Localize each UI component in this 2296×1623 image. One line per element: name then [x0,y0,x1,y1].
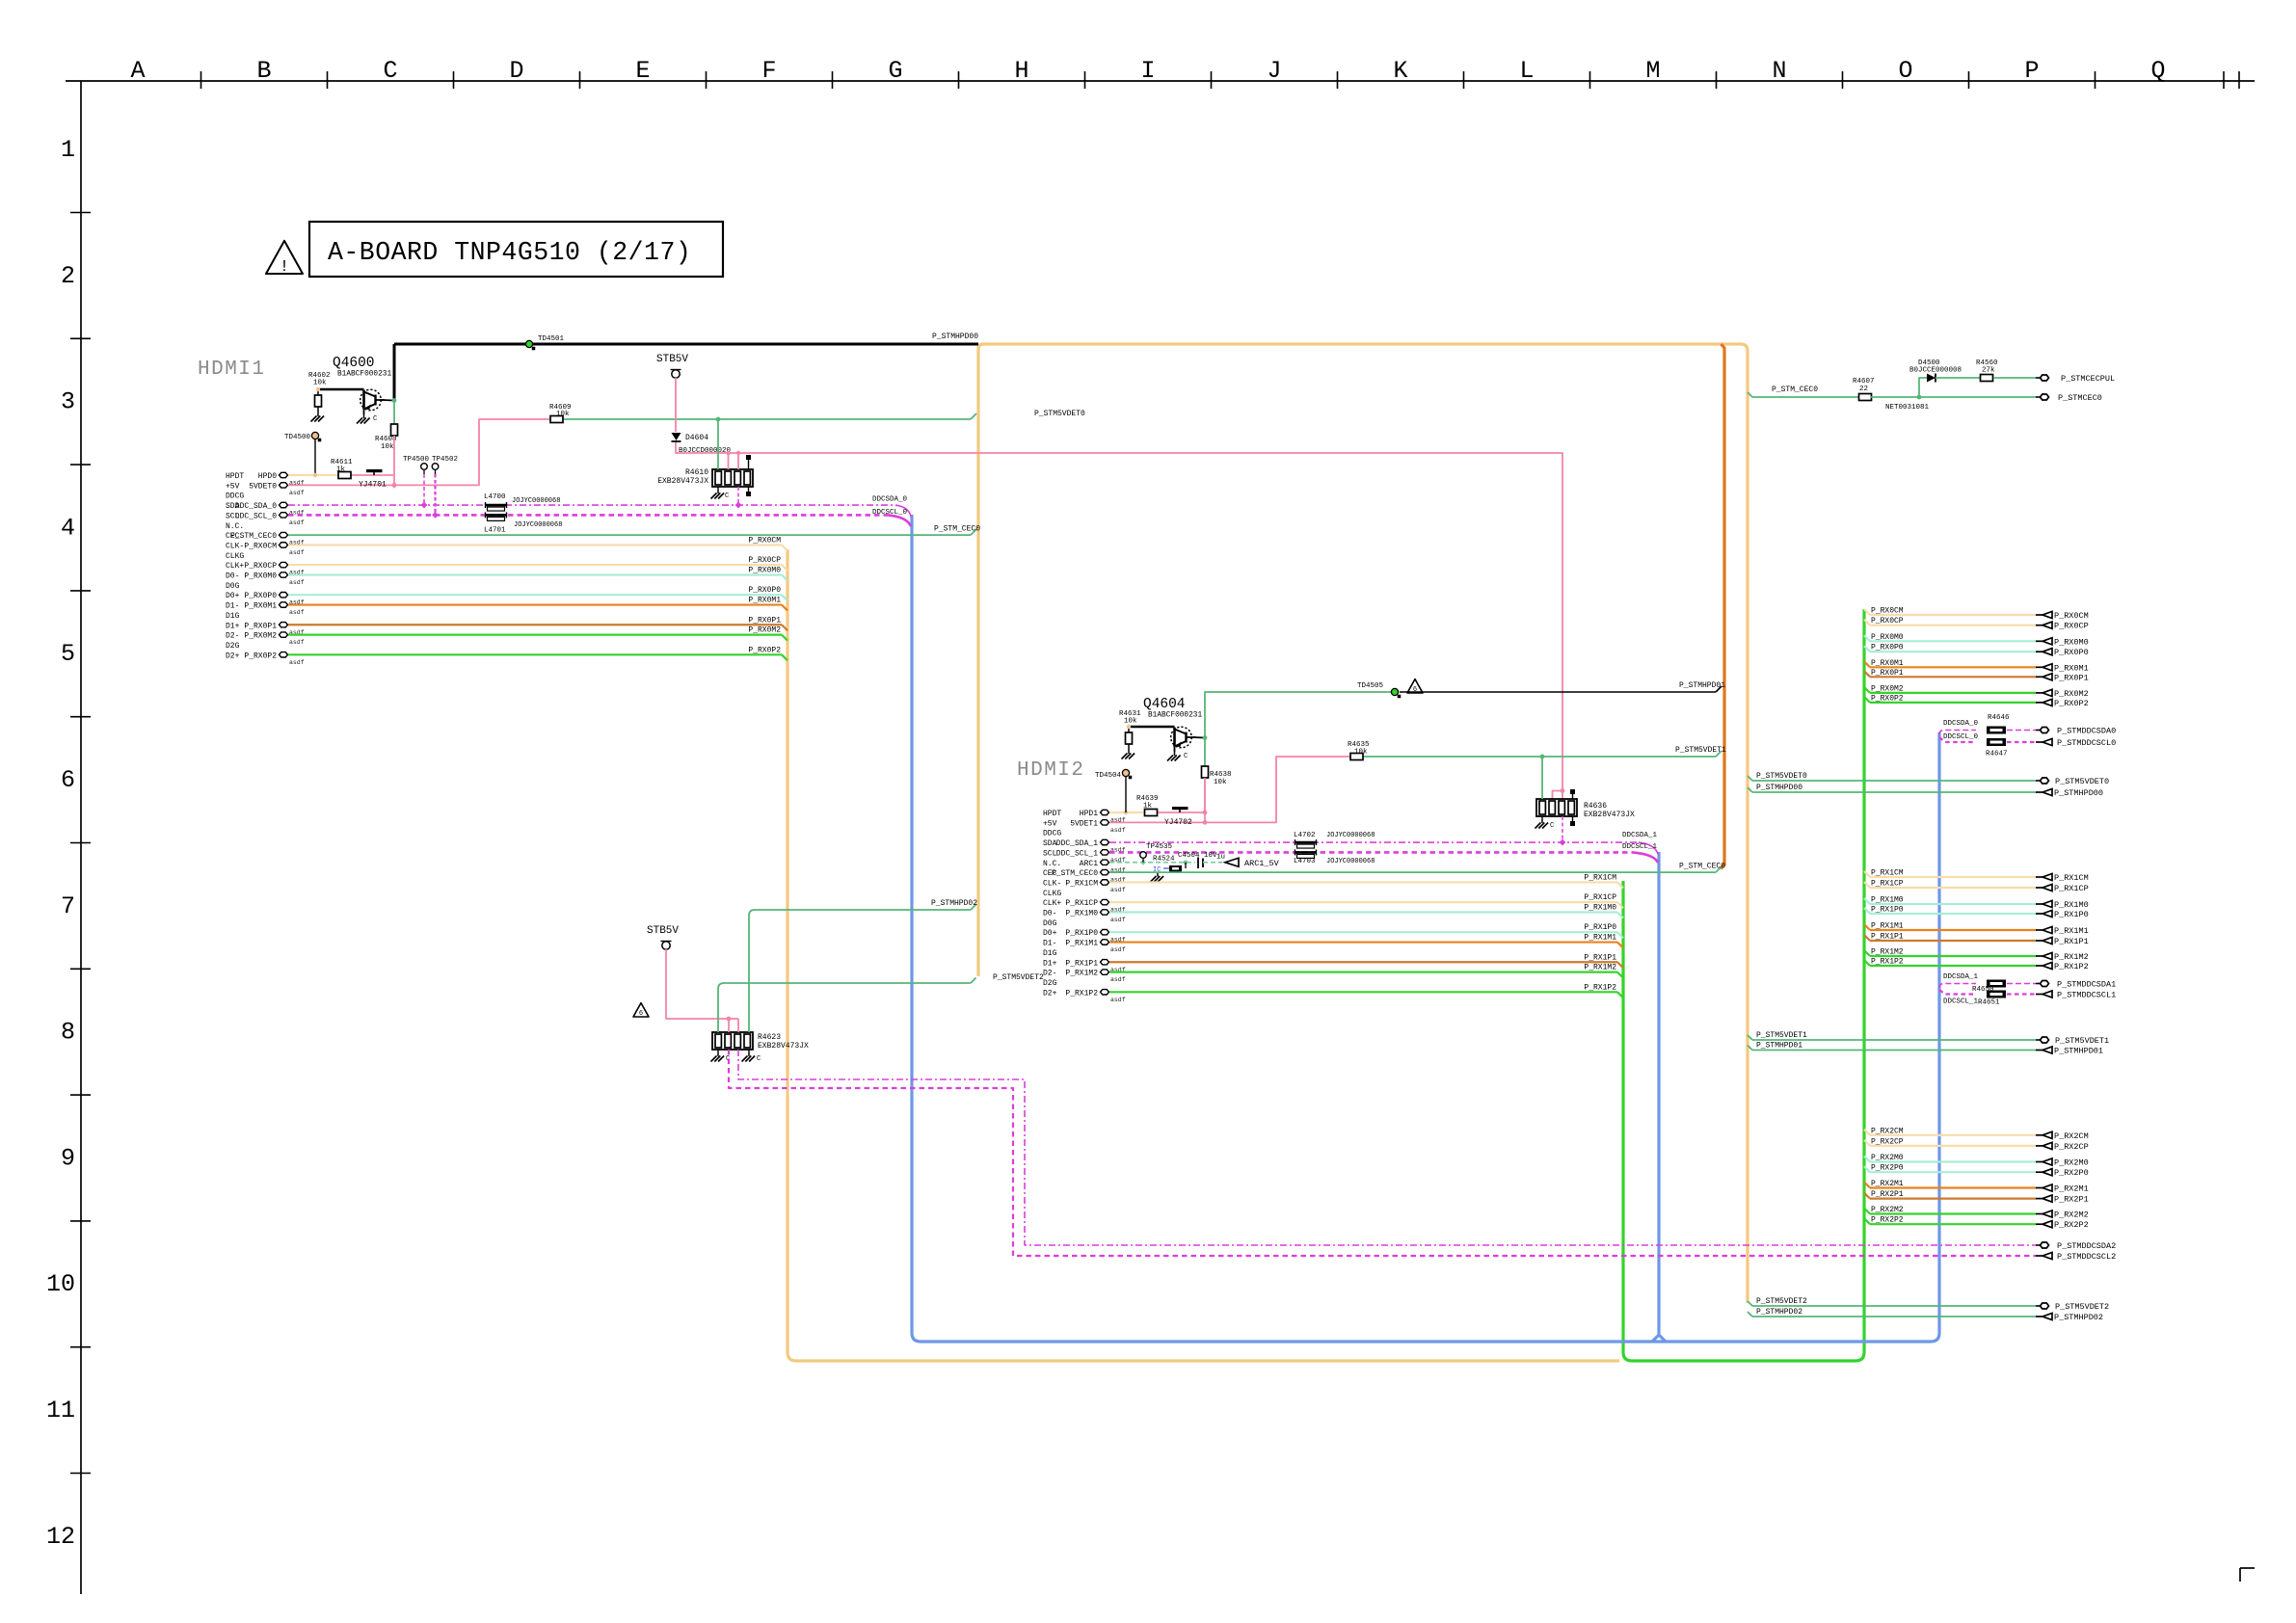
svg-text:JOJYC0000068: JOJYC0000068 [1326,832,1375,839]
svg-text:P_STMCEC0: P_STMCEC0 [2058,393,2102,403]
svg-text:P_RX0CP: P_RX0CP [244,562,277,571]
svg-text:asdf: asdf [1110,946,1126,953]
svg-text:D4604: D4604 [685,434,708,442]
svg-text:G: G [888,57,902,85]
svg-text:TP4535: TP4535 [1146,843,1173,851]
svg-text:CLK-: CLK- [1043,879,1061,888]
svg-text:P_RX0P0: P_RX0P0 [748,586,781,595]
svg-text:D2-: D2- [1043,970,1056,978]
svg-text:DDCSCL_1: DDCSCL_1 [1943,998,1979,1006]
stub P_RX2M0 output [1864,1157,1870,1162]
svg-text:P_RX2CP: P_RX2CP [2054,1142,2089,1152]
svg-text:M: M [1645,57,1660,85]
stub P_RX0CM output [1864,609,1870,615]
diode D4604 [672,433,681,440]
stub P_RX0CP output [1864,620,1870,625]
wire R4608 green segment [393,402,395,424]
stub DDCSCL_0 with R4647 [1939,737,1976,742]
svg-text:EXB28V473JX: EXB28V473JX [657,477,708,486]
stub P_STM5VDET0 [1748,776,1752,781]
svg-text:P_STMHPD01: P_STMHPD01 [1679,681,1725,690]
svg-text:10k: 10k [1124,718,1137,726]
svg-text:P_RX0CM: P_RX0CM [2054,611,2089,621]
svg-text:P_RX1M0: P_RX1M0 [1584,904,1616,913]
wire ARC1 pale green dashed [1109,862,1195,864]
svg-text:C: C [373,415,377,423]
svg-text:P_STMHPD00: P_STMHPD00 [932,333,978,341]
svg-text:L4700: L4700 [484,493,506,501]
svg-text:P_STMHPD02: P_STMHPD02 [2054,1313,2103,1322]
svg-text:9: 9 [61,1144,75,1172]
wire HPD0 wheat segment [288,474,338,476]
svg-text:P_RX0P2: P_RX0P2 [2054,699,2089,708]
svg-text:P_RX0P2: P_RX0P2 [748,646,781,654]
stub P_RX2P1 output [1864,1193,1870,1199]
svg-text:P_RX0P1: P_RX0P1 [244,622,277,630]
svg-text:P_RX0CM: P_RX0CM [748,536,781,545]
svg-text:SCL: SCL [1043,849,1057,858]
R4636 DDC tap magenta [1562,816,1563,842]
svg-text:D0-: D0- [1043,910,1056,918]
stub P_RX2P2 output [1864,1218,1870,1224]
svg-text:11: 11 [46,1397,75,1424]
svg-text:Q4600: Q4600 [333,356,375,371]
svg-text:!: ! [280,258,289,277]
svg-text:asdf: asdf [289,490,305,496]
svg-text:D1-: D1- [1043,940,1056,948]
wire D4500 to R4560 [1936,377,1980,379]
stub P_RX1P0 output [1864,908,1870,914]
ground Q4604 emitter [1174,752,1176,756]
stub P_RX0M0 output [1864,635,1870,641]
svg-text:N: N [1772,57,1786,85]
svg-text:P_RX1P0: P_RX1P0 [1871,906,1904,915]
svg-text:SDA: SDA [1043,839,1057,848]
svg-text:P_RX1CM: P_RX1CM [2054,873,2089,883]
stub P_RX2M1 output [1864,1183,1870,1188]
junction R4610 pin1 on 5VDET0 line [716,417,721,422]
svg-text:asdf: asdf [289,519,305,526]
svg-text:P_RX1P0: P_RX1P0 [1065,929,1098,938]
svg-text:N.C.: N.C. [1043,860,1061,868]
svg-text:Q4604: Q4604 [1143,697,1186,712]
svg-text:D2G: D2G [1043,979,1057,988]
svg-text:P_RX2CM: P_RX2CM [2054,1131,2089,1141]
svg-text:EXB28V473JX: EXB28V473JX [758,1042,809,1051]
svg-text:DDCG: DDCG [1043,830,1061,838]
wire P_STM5VDET0 green (R4609 to STM bus) [563,418,971,420]
wire P_STMHPD02 green from R4623 [749,910,971,1032]
svg-text:B: B [256,57,271,85]
svg-text:P_RX0CP: P_RX0CP [748,556,781,565]
svg-text:D0-: D0- [226,572,239,581]
junction Q4604 collector [1203,735,1208,740]
svg-text:K: K [1393,57,1407,85]
stub P_RX1P1 output [1864,935,1870,941]
arrow ARC1_5V [1225,858,1239,866]
frame row ticks [70,212,91,214]
svg-text:CLKG: CLKG [1043,890,1061,898]
wire P_RX1CP to RX1 bus [1109,901,1617,903]
svg-text:P_RX1M1: P_RX1M1 [1584,934,1616,943]
title box A-BOARD TNP4G510 [309,222,723,277]
svg-text:6: 6 [1413,686,1417,694]
wire P_RX0CM to RX0 bus [288,544,782,545]
svg-text:B1ABCF000231: B1ABCF000231 [337,371,391,379]
svg-text:P_STM5VDET1: P_STM5VDET1 [1675,746,1726,755]
R4636 pin wires [1541,757,1543,799]
stub P_RX2M2 output [1864,1209,1870,1214]
svg-text:7: 7 [61,892,75,920]
svg-text:D1+: D1+ [226,622,240,630]
svg-text:4: 4 [61,514,75,542]
svg-text:DDCSDA_0: DDCSDA_0 [872,496,908,504]
warning triangle 6 near R4623 [633,1003,649,1017]
blue bus merge bevels [1652,1335,1659,1342]
wire CECPUL branch [1919,378,1927,397]
bus wheat STM (corner 1015,357 to 1813 vertical) [978,344,1748,1303]
svg-text:P_STMHPD01: P_STMHPD01 [2054,1047,2103,1056]
svg-text:P_RX1M1: P_RX1M1 [1871,922,1904,931]
stub DDCSDA_1 with R4650 [1939,984,1976,989]
svg-text:HDMI2: HDMI2 [1017,759,1085,782]
svg-text:6: 6 [61,766,75,794]
svg-text:P_STM_CEC0: P_STM_CEC0 [230,532,277,541]
svg-text:YJ4702: YJ4702 [1164,818,1192,827]
svg-text:F: F [761,57,776,85]
svg-text:P_RX1M2: P_RX1M2 [2054,952,2089,962]
stub P_RX0P2 output [1864,697,1870,703]
stub P_RX1P2 output [1864,960,1870,966]
svg-text:22: 22 [1859,386,1868,393]
svg-text:P_STMHPD01: P_STMHPD01 [1756,1042,1802,1051]
svg-text:CLK+: CLK+ [1043,899,1061,908]
warning triangle 6 near TD4505 [1407,679,1423,693]
svg-text:P_STMDDCSCL2: P_STMDDCSCL2 [2057,1252,2116,1262]
wire P_RX1P1 to RX1 bus [1109,961,1617,963]
svg-text:B0JCCE000008: B0JCCE000008 [1909,367,1962,375]
svg-text:P_RX1P2: P_RX1P2 [1871,958,1904,967]
svg-text:asdf: asdf [1110,887,1126,893]
svg-text:D1G: D1G [1043,949,1057,958]
svg-text:TD4500: TD4500 [284,434,311,441]
svg-text:P_STMDDCSCL0: P_STMDDCSCL0 [2057,738,2116,748]
wire Q4604 collector green up to TD4505 [1205,692,1391,737]
svg-text:C: C [1550,822,1554,830]
svg-text:P_RX2M0: P_RX2M0 [2054,1158,2089,1168]
svg-text:P_RX1CP: P_RX1CP [2054,884,2089,893]
jumper YJ4702 [1172,807,1188,810]
svg-text:P_STMHPD02: P_STMHPD02 [1756,1308,1802,1317]
svg-text:P_STM5VDET2: P_STM5VDET2 [2055,1302,2109,1312]
svg-text:R4638: R4638 [1210,771,1232,779]
svg-text:C: C [383,57,397,85]
svg-text:R4607: R4607 [1853,378,1875,386]
svg-text:3: 3 [61,388,75,416]
svg-text:P_RX0P2: P_RX0P2 [1871,694,1904,703]
svg-text:D0G: D0G [1043,919,1057,928]
wire P_RX1P0 to RX1 bus [1109,931,1617,933]
svg-text:I: I [1140,57,1155,85]
wire P_STM_CEC0 right exit [1748,392,1752,397]
ground R4602 [317,412,319,416]
svg-text:C: C [1184,753,1188,760]
diode D4500 [1927,374,1936,383]
ground R4610 [717,490,719,493]
svg-text:R4524: R4524 [1153,856,1175,864]
svg-text:P_STM5VDET2: P_STM5VDET2 [1756,1297,1807,1306]
svg-text:HPDT: HPDT [226,472,244,481]
svg-text:CLKG: CLKG [226,552,244,561]
svg-text:asdf: asdf [289,609,305,616]
stub P_RX2CP output [1864,1140,1870,1146]
svg-text:8: 8 [61,1019,75,1047]
wire STB5V pink stem [675,378,677,432]
svg-text:P_RX0M1: P_RX0M1 [748,597,781,605]
stub P_RX1CM output [1864,871,1870,877]
ground Q4600 emitter [363,414,365,418]
svg-text:P_RX1M2: P_RX1M2 [1871,948,1904,957]
svg-text:asdf: asdf [1110,976,1126,983]
svg-text:P_RX1P2: P_RX1P2 [2054,962,2089,971]
stub DDCSCL_1 with R4651 [1939,990,1976,995]
svg-text:P_RX1M1: P_RX1M1 [1065,940,1098,948]
svg-text:P_STMCECPUL: P_STMCECPUL [2061,374,2115,384]
wire R4608 pink to 5VDET0 [393,436,395,485]
wire CEC to terminal [1871,396,2036,398]
svg-text:+5V: +5V [226,482,240,491]
svg-text:ARC1_5V: ARC1_5V [1244,859,1280,868]
bus blue DDC (x=946 down, bottom, up x=2012) [912,515,1939,1342]
wire P_RX1P2 to RX1 bus [1109,991,1617,993]
svg-text:N.C.: N.C. [226,522,244,531]
svg-text:P_RX0M0: P_RX0M0 [1871,633,1904,642]
wire DDC_SCL_1 magenta thick [1109,851,1633,854]
svg-text:asdf: asdf [1110,827,1126,834]
svg-text:P_RX0M1: P_RX0M1 [1871,659,1904,668]
stub P_RX1M2 output [1864,950,1870,956]
ground R4631 [1128,750,1130,754]
svg-text:D1+: D1+ [1043,959,1057,968]
svg-text:P_RX0M2: P_RX0M2 [244,632,277,641]
svg-text:P_RX1M0: P_RX1M0 [1065,910,1098,918]
wire P_RX0M2 to RX0 bus [288,633,782,635]
svg-text:10k: 10k [381,443,394,451]
svg-text:P_STM5VDET1: P_STM5VDET1 [1756,1031,1807,1040]
svg-text:P_STM5VDET1: P_STM5VDET1 [2055,1036,2109,1046]
svg-text:DDCSCL_1: DDCSCL_1 [1622,843,1658,851]
svg-text:D0+: D0+ [1043,929,1057,938]
wire P_STMHPD01 black [1400,691,1716,693]
svg-text:NET0031081: NET0031081 [1885,404,1930,412]
svg-text:P_RX0P1: P_RX0P1 [2054,673,2089,682]
wire HPD1 pink [1158,811,1205,813]
wire P_RX1CM to RX1 bus [1109,881,1617,883]
stub P_RX1M0 output [1864,898,1870,904]
wire P_STM_CEC0 green from HDMI1 [288,534,971,536]
svg-text:5VDET0: 5VDET0 [249,482,277,491]
svg-text:asdf: asdf [289,579,305,586]
svg-text:DDC_SCL_1: DDC_SCL_1 [1056,849,1098,858]
svg-text:P_STM_CEC0: P_STM_CEC0 [1052,869,1098,878]
svg-text:DDCSCL_0: DDCSCL_0 [872,509,908,517]
bus dark orange CEC/HPD1 (x=1789) [1721,344,1724,869]
svg-text:P_RX0M0: P_RX0M0 [2054,637,2089,647]
svg-text:P_RX1M0: P_RX1M0 [2054,900,2089,910]
magenta DDC2 lines from R4623 [729,1050,2036,1256]
svg-text:P_RX0P2: P_RX0P2 [244,652,277,660]
svg-text:P_RX1CM: P_RX1CM [1584,873,1616,882]
stub P_RX2P0 output [1864,1166,1870,1172]
svg-text:TP4502: TP4502 [432,456,458,464]
svg-text:R4636: R4636 [1584,802,1607,811]
svg-text:STB5V: STB5V [647,925,679,937]
stub P_RX0P1 output [1864,671,1870,677]
svg-text:P_RX1CM: P_RX1CM [1871,869,1904,878]
svg-text:P_RX1P1: P_RX1P1 [1065,959,1098,968]
svg-text:JOJYC0000068: JOJYC0000068 [1326,858,1375,865]
svg-text:L4701: L4701 [484,527,506,535]
svg-text:P_RX0P0: P_RX0P0 [2054,648,2089,657]
svg-text:P_RX2P2: P_RX2P2 [2054,1220,2089,1230]
svg-text:R4610: R4610 [685,468,708,477]
svg-text:TD4505: TD4505 [1357,682,1384,690]
stub DDCSDA_0 with R4646 [1939,731,1976,735]
svg-text:P_RX2M1: P_RX2M1 [2054,1184,2089,1194]
svg-text:P_RX1CP: P_RX1CP [1065,899,1098,908]
svg-text:H: H [1014,57,1028,85]
svg-text:B1ABCF000231: B1ABCF000231 [1148,712,1202,720]
svg-text:asdf: asdf [1110,997,1126,1003]
svg-text:P_RX2CM: P_RX2CM [1871,1127,1904,1135]
svg-text:D0+: D0+ [226,592,240,600]
svg-text:HDMI1: HDMI1 [198,359,266,381]
svg-text:P_STMDDCSDA1: P_STMDDCSDA1 [2057,980,2116,990]
wire P_RX0P0 to RX0 bus [288,594,782,596]
svg-text:P_STM5VDET2: P_STM5VDET2 [993,973,1044,982]
svg-text:P_RX0M0: P_RX0M0 [748,567,781,575]
wire P_RX0P1 to RX0 bus [288,624,782,625]
jumper YJ4701 [366,469,383,472]
wire R4638 green segment [1204,739,1206,766]
svg-text:P_RX0P1: P_RX0P1 [1871,669,1904,678]
resistor network R4636 EXB28V473JX [1536,799,1577,816]
svg-text:P_RX1M2: P_RX1M2 [1584,964,1616,972]
svg-text:P_RX1P2: P_RX1P2 [1065,989,1098,998]
svg-text:P_STM5VDET0: P_STM5VDET0 [2055,777,2109,786]
svg-text:P_STM_CEC0: P_STM_CEC0 [1772,386,1818,394]
svg-text:P_RX2M0: P_RX2M0 [1871,1154,1904,1162]
R4610 DDC tap magenta [737,487,739,505]
svg-text:P_STMHPD00: P_STMHPD00 [1756,784,1802,792]
wire 5VDET1 pink [1109,757,1350,822]
ground R4636 [1541,819,1543,823]
svg-text:D0G: D0G [226,582,240,591]
stub P_STM5VDET1 [1748,1035,1752,1040]
svg-text:P_RX2M2: P_RX2M2 [2054,1211,2089,1220]
svg-text:P_RX0CM: P_RX0CM [244,542,277,550]
svg-text:HPD1: HPD1 [1080,810,1098,818]
wire P_RX1M2 to RX1 bus [1109,971,1617,972]
svg-text:P_RX1CP: P_RX1CP [1584,893,1616,902]
svg-text:R4623: R4623 [758,1033,781,1042]
svg-text:asdf: asdf [289,659,305,666]
svg-text:10: 10 [46,1270,75,1298]
svg-text:P_RX0P0: P_RX0P0 [244,592,277,600]
svg-text:A-BOARD TNP4G510 (2/17): A-BOARD TNP4G510 (2/17) [328,238,691,267]
svg-text:DDCSCL_0: DDCSCL_0 [1943,733,1979,741]
svg-text:J: J [1267,57,1281,85]
terminal P_STMCEC0 [2036,396,2041,398]
svg-text:TP4500: TP4500 [403,456,430,464]
svg-text:A: A [130,57,145,85]
svg-text:P_RX2M2: P_RX2M2 [1871,1206,1904,1214]
svg-text:JOJYC0000068: JOJYC0000068 [512,497,560,505]
svg-text:D1-: D1- [226,602,239,611]
svg-text:12: 12 [46,1523,75,1551]
svg-text:DDC_SDA_0: DDC_SDA_0 [235,502,277,511]
svg-text:P_STMDDCSCL1: P_STMDDCSCL1 [2057,991,2116,1000]
svg-text:P_RX1CM: P_RX1CM [1065,879,1098,888]
svg-text:P_RX2P2: P_RX2P2 [1871,1216,1904,1225]
svg-text:D2-: D2- [226,632,239,641]
frame border left line [80,81,82,1594]
svg-text:P_STMHPD02: P_STMHPD02 [931,899,977,908]
terminals DDC group2 [2036,1244,2041,1246]
svg-text:R4647: R4647 [1986,751,2008,758]
svg-text:R4646: R4646 [1988,714,2010,722]
svg-text:TD4504: TD4504 [1095,772,1122,780]
wire P_RX0P2 to RX0 bus [288,653,782,655]
svg-text:P_RX0M1: P_RX0M1 [2054,663,2089,673]
svg-text:ARC1: ARC1 [1080,860,1098,868]
svg-text:DDC_SDA_1: DDC_SDA_1 [1056,839,1098,848]
svg-text:L4702: L4702 [1294,832,1316,839]
svg-text:P_RX2P0: P_RX2P0 [2054,1168,2089,1178]
frame border top line [66,80,2255,82]
svg-text:Q: Q [2150,57,2165,85]
svg-text:P_RX0CP: P_RX0CP [2054,622,2089,631]
svg-text:P_RX0P1: P_RX0P1 [748,616,781,625]
bus wheat RX0 (vertical x=817 + bottom run) [788,549,1619,1361]
svg-text:P_RX2P1: P_RX2P1 [2054,1195,2089,1205]
svg-text:D2+: D2+ [1043,989,1057,998]
svg-text:CLK-: CLK- [226,542,244,550]
svg-text:DDCG: DDCG [226,492,244,501]
svg-text:DDCSDA_0: DDCSDA_0 [1943,720,1979,728]
svg-text:6: 6 [639,1010,643,1018]
svg-text:P_RX2M1: P_RX2M1 [1871,1180,1904,1188]
svg-text:STB5V: STB5V [656,354,688,365]
svg-text:P: P [2024,57,2039,85]
svg-text:L4703: L4703 [1294,858,1316,865]
svg-text:P_RX0CM: P_RX0CM [1871,607,1904,616]
svg-text:P_RX1M1: P_RX1M1 [2054,926,2089,936]
wire DDC_SDA_1 magenta [1109,841,1639,843]
svg-text:P_STMDDCSDA2: P_STMDDCSDA2 [2057,1241,2116,1251]
junction Q4600 collector [392,398,397,403]
svg-text:HPD0: HPD0 [258,472,277,481]
svg-text:C: C [725,492,729,500]
svg-text:HPDT: HPDT [1043,810,1061,818]
svg-text:P_RX1P0: P_RX1P0 [2054,910,2089,919]
svg-text:P_STM5VDET0: P_STM5VDET0 [1756,772,1807,781]
svg-text:L: L [1519,57,1534,85]
stub P_RX0P0 output [1864,646,1870,652]
svg-text:10k: 10k [313,380,327,387]
pink jog to R4636 [1561,788,1565,793]
wire P_STM5VDET2 green from R4623 [718,983,971,1032]
